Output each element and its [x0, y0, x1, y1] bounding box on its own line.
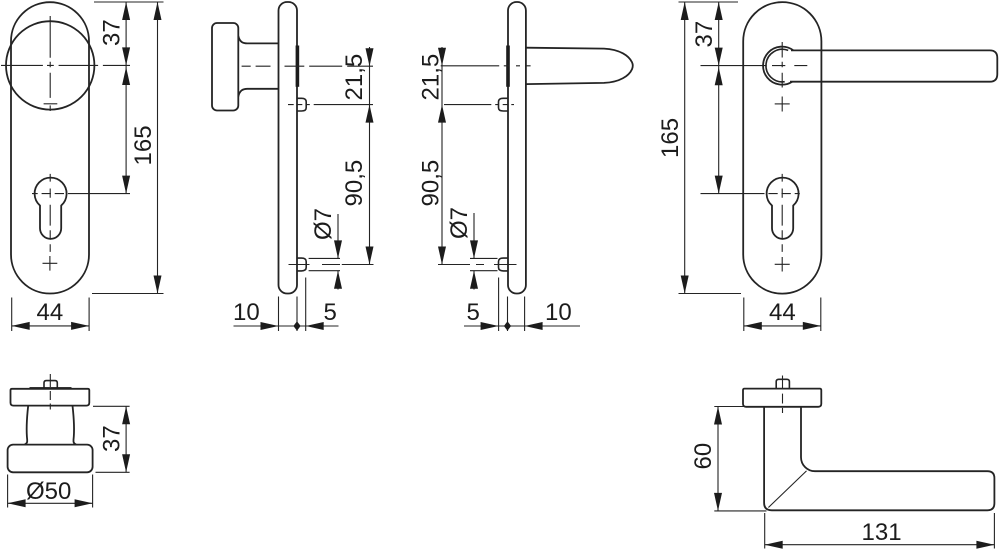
upper screw head	[499, 98, 509, 111]
svg-text:10: 10	[545, 299, 572, 326]
spindle nub	[44, 381, 57, 388]
cylinder vertical centerline	[49, 174, 51, 252]
dim 131 line	[765, 544, 995, 546]
spindle (black)	[296, 46, 300, 87]
dim 37 extension top line	[679, 1, 739, 3]
dim 37 arrow up	[122, 406, 130, 424]
bottom ext plate left	[507, 297, 509, 332]
dim 21,5 arrow down (above axis)	[366, 48, 374, 66]
dim Ø50 line	[8, 502, 93, 504]
plate side outline	[279, 2, 298, 294]
dim 37 bottom extension	[96, 471, 130, 473]
upper screw mark tick	[775, 103, 790, 105]
dim 44 extension left	[743, 298, 745, 332]
lower screw cross	[775, 257, 790, 272]
upper screw centerline	[288, 104, 373, 106]
dim 44 line	[744, 325, 821, 327]
svg-text:90,5: 90,5	[418, 160, 445, 207]
dim 90,5 arrow down	[366, 247, 374, 265]
dim Ø50 arrow right	[75, 499, 93, 507]
lower screw hole Ø7 lines	[309, 258, 340, 270]
spindle (black)	[506, 46, 510, 87]
dim 44 arrow right	[71, 322, 89, 330]
lever rose inner arc	[766, 49, 788, 82]
dim 131 arrow right	[976, 541, 994, 549]
svg-text:Ø7: Ø7	[446, 207, 473, 239]
dim 165 line	[157, 2, 159, 294]
dim 44 extension right	[88, 298, 90, 332]
svg-text:44: 44	[37, 299, 64, 326]
dim 131 arrow left	[765, 541, 783, 549]
knob circle Ø50	[6, 21, 94, 109]
dim 37 arrow down	[122, 47, 130, 65]
cylinder horizontal centerline	[32, 193, 130, 195]
cylinder vertical centerline	[781, 174, 783, 252]
dim 21,5/90,5 arrow up	[438, 105, 446, 123]
plate side outline	[508, 2, 526, 294]
lever rose outer arc	[763, 47, 793, 85]
dim Ø50 arrow left	[8, 499, 26, 507]
dim 44 arrow left	[744, 322, 762, 330]
dim Ø50 ext left	[7, 475, 9, 508]
dim 165 arrow down	[681, 276, 689, 294]
svg-text:131: 131	[862, 519, 902, 546]
lower screw cross	[43, 256, 58, 271]
dim 37 top extension	[93, 405, 130, 407]
dim 60 arrow up	[714, 407, 722, 425]
dim 165 arrow up	[681, 2, 689, 20]
dim 5 arrow	[306, 322, 324, 330]
centerline	[782, 376, 784, 414]
dim 44 extension left	[11, 298, 13, 332]
dim 165 line	[684, 2, 686, 294]
cylinder horizontal centerline	[768, 193, 799, 195]
lower screw extension to dim	[438, 264, 470, 266]
centerline	[49, 374, 51, 410]
svg-text:21,5: 21,5	[418, 54, 445, 101]
svg-text:60: 60	[690, 443, 717, 470]
junction dot	[293, 321, 300, 330]
dim 165 arrow up	[154, 2, 162, 20]
dim 131 ext left	[764, 513, 766, 549]
svg-text:37: 37	[99, 425, 126, 452]
chain arrow up	[122, 67, 130, 85]
dim 37 arrow down	[715, 48, 723, 66]
dim 10 arrow	[525, 322, 543, 330]
dim 37 arrow up	[715, 2, 723, 20]
dim 60 top extension	[714, 406, 744, 408]
lower screw centerline	[289, 264, 341, 266]
bottom ext plate left	[278, 297, 280, 332]
dim Ø7 arrow down	[334, 240, 342, 258]
dim Ø7 arrow down	[470, 240, 478, 258]
dim 21,5 arrow down (above axis)	[438, 48, 446, 66]
rose edge (thick)	[30, 387, 72, 389]
svg-text:Ø7: Ø7	[310, 208, 337, 240]
dim 37/chain line	[125, 2, 127, 194]
bottom dim line	[234, 325, 339, 327]
lever axis vertical centerline	[781, 42, 783, 88]
lower screw extension to dim	[342, 264, 374, 266]
lever bar	[790, 50, 997, 81]
dim Ø7 line upper	[337, 214, 339, 258]
bottom ext screw tip	[305, 278, 307, 332]
dim 165 bottom extension	[679, 293, 742, 295]
plate outline (stadium 44x165)	[11, 2, 89, 293]
dim 90,5 arrow down	[438, 247, 446, 265]
plate bar	[743, 389, 821, 407]
dim 165 bottom extension	[92, 293, 164, 295]
svg-text:10: 10	[233, 299, 260, 326]
svg-text:Ø50: Ø50	[26, 478, 71, 505]
cylinder centerline extension	[701, 193, 765, 195]
svg-text:165: 165	[130, 125, 157, 165]
knob neck bottom line	[238, 89, 278, 97]
dim 60 line	[717, 407, 719, 511]
bottom ext plate right	[296, 297, 298, 332]
dim 44 extension right	[820, 298, 822, 332]
svg-text:90,5: 90,5	[341, 160, 368, 207]
junction dot	[504, 321, 511, 330]
upper screw centerline	[444, 104, 514, 106]
dim Ø7 arrow up	[470, 271, 478, 289]
knob head	[8, 445, 93, 473]
lower screw head	[297, 258, 306, 271]
bottom ext screw tip	[498, 278, 500, 332]
upper screw mark vertical	[49, 105, 51, 111]
svg-text:37: 37	[691, 21, 718, 48]
knob neck right line	[73, 406, 77, 445]
upper screw head	[297, 98, 306, 111]
euro cylinder keyhole	[767, 178, 799, 239]
svg-text:21,5: 21,5	[341, 54, 368, 101]
chain arrow down at cylinder	[122, 176, 130, 194]
svg-text:37: 37	[99, 19, 126, 46]
lever axis horizontal centerline	[772, 65, 807, 67]
bottom ext plate right	[524, 297, 526, 332]
bottom dim line	[464, 325, 580, 327]
svg-text:44: 44	[769, 299, 796, 326]
dim 5 arrow	[481, 322, 499, 330]
grip mitre line	[768, 471, 806, 508]
knob head	[212, 23, 238, 111]
knob axis centerline	[242, 65, 373, 67]
upper screw mark tick	[44, 103, 58, 105]
lever neck + grip outline	[764, 407, 994, 511]
chain arrow down at cylinder	[715, 176, 723, 194]
dim 44 line	[12, 325, 89, 327]
lever grip (bullet)	[526, 48, 633, 84]
spindle nub	[776, 379, 789, 388]
lower screw centerline	[476, 264, 517, 266]
knob neck left line	[25, 406, 29, 445]
dim 44 arrow right	[803, 322, 821, 330]
dim 21,5 / 90,5 line	[369, 47, 371, 265]
dim 131 ext right	[993, 513, 995, 549]
dim Ø7 line lower	[337, 271, 339, 290]
chain arrow up	[715, 67, 723, 85]
dim 60 bottom extension	[714, 510, 766, 512]
upper screw mark vertical	[781, 97, 783, 112]
dim Ø7 arrow up	[334, 271, 342, 289]
dim 37 arrow up	[122, 2, 130, 20]
dim 37 extension top line	[94, 1, 164, 3]
knob neck top line	[238, 36, 278, 43]
svg-text:165: 165	[657, 118, 684, 158]
dim Ø7 line upper	[473, 213, 475, 258]
dim 165 arrow down	[154, 276, 162, 294]
knob horizontal centerline	[1, 64, 130, 66]
dim 37 line	[125, 406, 127, 472]
euro cylinder keyhole	[35, 178, 67, 239]
plate outline (stadium 44x165)	[743, 2, 821, 294]
dim 10 arrow	[261, 322, 279, 330]
dim 21,5/90,5 arrow up (below screw line)	[366, 105, 374, 123]
plate bar	[11, 389, 90, 406]
dim Ø50 ext right	[92, 475, 94, 508]
dim 44 arrow left	[12, 322, 30, 330]
lever axis centerline	[441, 65, 531, 67]
lever axis centerline extension	[701, 65, 767, 67]
knob vertical centerline	[49, 16, 51, 98]
dim 37 arrow down	[122, 454, 130, 472]
svg-text:5: 5	[467, 299, 480, 326]
dim 37/chain line	[718, 2, 720, 194]
dim 21,5 / 90,5 line	[441, 47, 443, 265]
dim Ø7 line lower	[473, 271, 475, 290]
lower screw head	[499, 258, 509, 271]
dim 60 arrow down	[714, 493, 722, 511]
lower screw hole Ø7 lines	[470, 258, 498, 270]
svg-text:5: 5	[324, 299, 337, 326]
